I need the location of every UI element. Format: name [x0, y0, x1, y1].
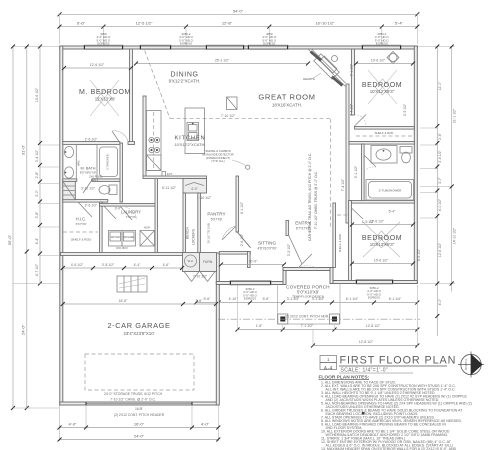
closet3 shelf dashed — [337, 214, 348, 216]
window header label stacks — [97, 32, 390, 46]
wall: closet1 south / bath2 north — [349, 142, 414, 145]
garage dims upper — [63, 267, 182, 269]
svg-text:16'/8': 16'/8' — [135, 407, 143, 411]
wall: top exterior — [60, 46, 418, 49]
svg-text:10'X13'X9'3": 10'X13'X9'3" — [370, 242, 395, 247]
svg-text:6'-6": 6'-6" — [77, 20, 86, 25]
svg-text:HEARTH: HEARTH — [303, 77, 315, 81]
svg-text:5'-4": 5'-4" — [389, 210, 397, 214]
svg-text:3'-4 1/2": 3'-4 1/2" — [35, 149, 39, 162]
svg-text:3'-5 1/2": 3'-5 1/2" — [287, 243, 291, 256]
svg-text:5'-6": 5'-6" — [263, 297, 271, 301]
master shower — [97, 145, 120, 180]
svg-text:EGRESS: EGRESS — [368, 295, 380, 299]
svg-text:A-4: A-4 — [324, 366, 333, 372]
front porch dim tier y302 — [196, 302, 417, 304]
wall: bedroom1 west — [352, 49, 355, 115]
svg-text:4'6"X10'9"X9': 4'6"X10'9"X9' — [258, 246, 277, 250]
svg-text:(2) 2X12 CONT. PITCH HDR.: (2) 2X12 CONT. PITCH HDR. — [285, 315, 330, 319]
svg-text:3'-10 1/2": 3'-10 1/2" — [81, 187, 96, 191]
svg-text:4'-0": 4'-0" — [438, 298, 442, 306]
door: bath2 — [364, 155, 376, 167]
range circles — [149, 137, 154, 142]
svg-text:25'-1 1/2": 25'-1 1/2" — [215, 58, 230, 62]
svg-text:14'-6 1/2": 14'-6 1/2" — [35, 87, 39, 102]
porch header dash-dot line — [218, 318, 420, 320]
svg-text:4'-0": 4'-0" — [201, 422, 210, 427]
svg-text:2'-8": 2'-8" — [35, 171, 39, 179]
bath2 toilet — [400, 147, 412, 154]
svg-text:12'-6 1/2": 12'-6 1/2" — [438, 242, 442, 257]
svg-text:(SHELF & ROD): (SHELF & ROD) — [71, 238, 92, 242]
svg-text:6'X7'X9': 6'X7'X9' — [76, 222, 87, 226]
svg-text:2'-6": 2'-6" — [438, 132, 442, 140]
wall: front of bedroom3 wing — [333, 281, 417, 284]
wall: garage top — [61, 253, 185, 256]
svg-text:12'-8 1/2": 12'-8 1/2" — [366, 324, 381, 328]
door: entry front — [298, 254, 312, 268]
wall: garage right exterior — [216, 253, 219, 405]
svg-text:(TYP. ALL): (TYP. ALL) — [211, 159, 224, 163]
svg-text:24'-0" STORAGE TRUSS, 6/12 PIT: 24'-0" STORAGE TRUSS, 6/12 PITCH — [104, 392, 163, 396]
ceiling fan X: master bedroom — [90, 80, 119, 116]
svg-text:DRYER: DRYER — [111, 235, 120, 239]
svg-text:5'-1 1/2": 5'-1 1/2" — [354, 165, 358, 178]
floor plan notes — [321, 381, 472, 450]
window: bedroom1 top — [362, 45, 401, 49]
north arrow compass — [461, 354, 481, 374]
door: bedroom1 — [355, 115, 367, 127]
interior dim: dining/great width — [136, 63, 308, 65]
svg-text:3'-6 1/2": 3'-6 1/2" — [438, 150, 442, 163]
svg-text:LAUNDRY: LAUNDRY — [121, 210, 141, 215]
garage bottom tier1 — [59, 405, 61, 441]
ceiling fan X: bedroom1 — [368, 70, 397, 104]
wall: lockers west — [183, 193, 186, 253]
svg-text:BEDROOM: BEDROOM — [362, 235, 402, 242]
svg-text:4'-6": 4'-6" — [163, 263, 171, 267]
hall/entry jog wall — [286, 221, 289, 236]
master bath vanity counter — [63, 145, 77, 179]
wall: laundry east / mudhall west — [155, 179, 158, 254]
garage dims mid — [63, 303, 216, 305]
wall: bath east — [120, 143, 123, 202]
svg-text:4'-0": 4'-0" — [69, 422, 78, 427]
wall: mudhall east — [198, 193, 201, 253]
svg-text:SHELF & ROD: SHELF & ROD — [338, 234, 342, 253]
svg-text:5'-4": 5'-4" — [395, 20, 404, 25]
svg-text:WASHER: WASHER — [123, 235, 134, 239]
door: pantry angled — [222, 226, 236, 240]
porch column 1 — [278, 314, 288, 324]
svg-text:10 1/2" TO SUB.: 10 1/2" TO SUB. — [207, 222, 211, 244]
svg-text:4'-0": 4'-0" — [191, 187, 199, 191]
svg-text:7'-10 1/2": 7'-10 1/2" — [193, 275, 208, 279]
svg-text:14'-10 1/2": 14'-10 1/2" — [453, 227, 457, 244]
refrigerator — [227, 97, 238, 110]
svg-text:10'-6 1/2": 10'-6 1/2" — [371, 58, 386, 62]
svg-text:12'X13'X9': 12'X13'X9' — [95, 97, 116, 102]
kitchen island — [185, 108, 205, 154]
svg-text:54'-0": 54'-0" — [233, 8, 244, 13]
svg-text:4'-1 1/2": 4'-1 1/2" — [240, 201, 244, 214]
svg-text:55'-0": 55'-0" — [7, 234, 12, 245]
fan mark: bedroom1 top — [389, 54, 397, 62]
svg-text:10'-0": 10'-0" — [249, 259, 258, 263]
wall: pantry angled SE — [237, 232, 251, 248]
svg-text:2'-6 1/2": 2'-6 1/2" — [85, 138, 98, 142]
wall: bath2 south / bedroom3 north — [349, 201, 414, 204]
porch column 2 — [330, 314, 340, 324]
svg-text:PANTRY: PANTRY — [207, 212, 225, 217]
fireplace dark jamb bars — [310, 51, 322, 62]
dimension tier left third — [39, 47, 41, 284]
svg-text:2'-6 1/2": 2'-6 1/2" — [240, 233, 244, 246]
wall: pantry east — [236, 176, 239, 232]
wall: front of sitting room — [216, 282, 286, 285]
svg-text:4'-4": 4'-4" — [35, 237, 39, 245]
svg-text:2'-6 1/2": 2'-6 1/2" — [85, 204, 98, 208]
right extension line at top — [417, 46, 455, 48]
svg-text:7'-10 1/2": 7'-10 1/2" — [221, 114, 236, 118]
mud cabinet with X — [140, 231, 155, 247]
dimension tier2 top — [60, 26, 418, 28]
svg-text:3'-8": 3'-8" — [35, 211, 39, 219]
door: toilet room — [83, 180, 92, 193]
interior dim: M bedroom width — [64, 67, 131, 69]
svg-text:12'-0": 12'-0" — [438, 81, 442, 90]
fireplace: angled corner — [308, 49, 346, 87]
svg-text:7'-1 1/2": 7'-1 1/2" — [301, 324, 314, 328]
svg-text:5' TUB/SHOWER: 5' TUB/SHOWER — [379, 189, 402, 193]
bath2 vanity + sink — [371, 146, 397, 164]
svg-text:18'X16'XCATH.: 18'X16'XCATH. — [272, 103, 302, 108]
svg-text:5' SHOWER: 5' SHOWER — [106, 154, 110, 169]
wall: bedroom3 west — [349, 201, 352, 281]
svg-text:6'-1 1/4": 6'-1 1/4" — [389, 297, 402, 301]
svg-text:31'-0": 31'-0" — [20, 144, 25, 155]
svg-text:SCALE: 1/4"=1'-0": SCALE: 1/4"=1'-0" — [341, 368, 389, 374]
note mark square — [362, 412, 365, 415]
wall: bath south — [63, 200, 108, 203]
title block box — [320, 356, 337, 370]
svg-text:3'-8 1/2": 3'-8 1/2" — [102, 263, 115, 267]
linen closet — [63, 181, 76, 199]
svg-text:4'-6 1/2": 4'-6 1/2" — [417, 248, 421, 261]
wall: left exterior — [60, 46, 63, 405]
window: sitting front — [230, 281, 271, 285]
svg-text:FURN.: FURN. — [203, 260, 213, 264]
laundry appliances: washer — [122, 231, 136, 247]
svg-text:12'-6 1/2": 12'-6 1/2" — [90, 63, 105, 67]
svg-text:7'-10 1/2" CHNS. @ 2'-0" O.C.: 7'-10 1/2" CHNS. @ 2'-0" O.C. — [110, 397, 156, 401]
svg-text:W.H.: W.H. — [187, 259, 193, 263]
smoke detector note — [202, 149, 233, 163]
svg-text:1'-8": 1'-8" — [256, 324, 264, 328]
svg-text:12'-8": 12'-8" — [222, 20, 233, 25]
svg-text:3'-9 1/2": 3'-9 1/2" — [403, 103, 407, 116]
svg-text:DINING: DINING — [170, 72, 198, 79]
dashed ceiling break: dining diagonal — [145, 51, 170, 119]
svg-text:3'-7": 3'-7" — [438, 176, 442, 184]
dimension tier left overall 55'-0" — [12, 47, 14, 409]
svg-text:16'-10 1/2": 16'-10 1/2" — [315, 20, 335, 25]
svg-text:10'X12'2"XCATH.: 10'X12'2"XCATH. — [174, 142, 205, 147]
svg-text:SITTING: SITTING — [258, 241, 277, 246]
svg-text:4'-4": 4'-4" — [134, 263, 142, 267]
master toilet — [109, 185, 117, 195]
wall: right exterior — [414, 46, 417, 284]
bath2 tub — [366, 180, 414, 201]
svg-text:10'X12'X9'3": 10'X12'X9'3" — [370, 89, 395, 94]
extension lines left — [40, 144, 59, 146]
svg-text:GREAT ROOM: GREAT ROOM — [258, 93, 315, 102]
wall: great room east / hall — [346, 84, 349, 223]
window label stack: sitting front — [243, 286, 382, 300]
wall: bath mid (2x6 plumb wall) — [63, 179, 77, 182]
svg-text:H.I.C.: H.I.C. — [76, 217, 87, 222]
svg-text:7'X7'X9': 7'X7'X9' — [126, 215, 137, 219]
door: bedroom3 — [352, 208, 364, 219]
svg-text:7'-4 1/2": 7'-4 1/2" — [341, 178, 345, 191]
svg-text:5'X7'X9': 5'X7'X9' — [211, 218, 223, 222]
svg-text:M. BEDROOM: M. BEDROOM — [79, 89, 131, 96]
svg-text:3'-0": 3'-0" — [115, 207, 123, 211]
svg-text:WALL: WALL — [91, 178, 99, 182]
left extension line at top — [13, 46, 60, 48]
svg-text:HOP.: HOP. — [144, 226, 151, 230]
svg-text:FIRST FLOOR PLAN: FIRST FLOOR PLAN — [340, 355, 457, 367]
wall: HIC2 east — [100, 202, 103, 253]
closet1 shelf dashed — [356, 135, 413, 137]
wall: M.bedroom south / bath north — [63, 142, 120, 145]
svg-text:BENCH: BENCH — [186, 227, 190, 239]
svg-text:5'-11 1/2": 5'-11 1/2" — [162, 186, 177, 190]
svg-text:4'-10": 4'-10" — [229, 297, 238, 301]
window: dining top left — [140, 45, 171, 49]
svg-text:(2) 2X12 CONT. PITCH HEADER: (2) 2X12 CONT. PITCH HEADER — [114, 413, 165, 417]
laundry appliances: dryer — [109, 231, 123, 247]
window: dining top right — [206, 45, 244, 49]
wall: sitting east — [248, 252, 251, 268]
garage attic stair — [117, 276, 147, 292]
dimension tier1 top overall 54'-0" — [60, 13, 418, 15]
garage storage dashed rect — [85, 354, 194, 390]
svg-text:8'5"X8'5"X9': 8'5"X8'5"X9' — [80, 171, 97, 175]
dim: bedroom3 widths — [352, 224, 413, 226]
wall: entry front wall — [283, 268, 333, 271]
svg-text:12'-8 1/2": 12'-8 1/2" — [359, 340, 374, 344]
svg-text:16'-0": 16'-0" — [134, 422, 145, 427]
svg-text:9'X12'2"XCATH.: 9'X12'2"XCATH. — [169, 79, 201, 84]
svg-text:NORTH: NORTH — [464, 359, 468, 370]
svg-text:VAN.: VAN. — [77, 160, 81, 167]
svg-text:12'-5 1/2": 12'-5 1/2" — [136, 20, 153, 25]
wall: kitchen west — [143, 96, 146, 177]
bottom right tier y345 — [313, 345, 417, 347]
svg-text:4'-6 1/2": 4'-6 1/2" — [71, 263, 84, 267]
dimension tier right first — [436, 47, 438, 337]
svg-text:23'4"X23'8"X10': 23'4"X23'8"X10' — [123, 331, 154, 336]
wall: bed3 closet west — [333, 203, 336, 268]
porch slab outline — [277, 285, 279, 325]
svg-text:EGRESS: EGRESS — [244, 296, 256, 300]
HIC2 shelf dashed — [63, 231, 98, 233]
door: laundry — [120, 206, 132, 220]
wall: hall north (kitchen south) — [143, 176, 207, 179]
window: master bedroom top — [84, 45, 123, 49]
svg-text:5'-6": 5'-6" — [196, 299, 204, 303]
svg-text:6'-1 1/4": 6'-1 1/4" — [346, 297, 359, 301]
svg-text:4'-0 1/2": 4'-0 1/2" — [438, 198, 442, 211]
svg-text:7'-4 1/2": 7'-4 1/2" — [350, 103, 354, 116]
svg-text:3'-0": 3'-0" — [35, 189, 39, 197]
svg-text:SHELF & ROD: SHELF & ROD — [375, 131, 394, 135]
svg-text:LOCKERS: LOCKERS — [192, 228, 196, 245]
door: HIC2 — [102, 204, 116, 219]
coat closet box — [183, 179, 207, 194]
wall: laundry north — [100, 204, 158, 207]
svg-text:EXT.: EXT. — [167, 172, 173, 176]
dimension tier right second — [451, 47, 453, 292]
dashed ceiling break: vertical great room — [330, 119, 332, 228]
interior dim: bedroom1 width — [356, 63, 413, 65]
dimension tier left second — [26, 47, 28, 409]
svg-text:BEDROOM: BEDROOM — [362, 82, 402, 89]
garage furnace closet — [183, 253, 217, 272]
svg-text:4'-7 1/2": 4'-7 1/2" — [35, 263, 39, 276]
svg-text:CATHEDRAL TRAIL A/2 TRUSS, 6/1: CATHEDRAL TRAIL A/2 TRUSS, 6/12 PITCH @ … — [308, 153, 312, 241]
dim: sitting width — [221, 264, 284, 266]
svg-text:21'-1 1/2": 21'-1 1/2" — [453, 108, 457, 123]
wall: porch recess west — [283, 268, 286, 285]
door: M.bedroom (swing) — [112, 131, 120, 143]
dashed ceiling break: horizontal — [170, 118, 331, 120]
svg-text:KITCHEN: KITCHEN — [174, 136, 205, 142]
svg-text:18'-6": 18'-6" — [119, 299, 128, 303]
svg-text:24'-0": 24'-0" — [134, 434, 145, 439]
door: furnace closet double doors — [184, 272, 199, 282]
kitchen west counter — [147, 111, 162, 171]
window: bedroom3 front — [356, 280, 393, 284]
svg-text:10'-6 1/2": 10'-6 1/2" — [374, 258, 389, 262]
window: great room top — [248, 45, 288, 49]
wall: garage bottom exterior — [60, 402, 219, 405]
svg-text:9'-1 1/2": 9'-1 1/2" — [350, 63, 354, 76]
svg-text:1'-10 1/2": 1'-10 1/2" — [197, 196, 212, 200]
wall: sitting north — [219, 252, 250, 255]
svg-text:1'-5 1/2": 1'-5 1/2" — [362, 220, 375, 224]
porch column dim tier y329 — [238, 329, 418, 331]
garage bottom tier2 24'-0" — [60, 439, 219, 441]
wall: bath2 west — [362, 144, 365, 201]
svg-text:24'-0": 24'-0" — [20, 324, 25, 335]
wall: M.bedroom east — [130, 49, 133, 144]
svg-text:5'-6": 5'-6" — [204, 297, 212, 301]
fireplace fan circle — [332, 56, 338, 62]
ceiling fan X: bedroom3 — [363, 222, 400, 257]
svg-text:7'-10 1/2" OHBS. TRUSS @ 2'-0": 7'-10 1/2" OHBS. TRUSS @ 2'-0" O.C. — [314, 171, 318, 229]
svg-text:W.D. BOX: W.D. BOX — [116, 246, 128, 250]
wall: porch recess east — [330, 268, 333, 284]
door: HIC2 from bath — [78, 202, 92, 217]
garage door opening — [86, 403, 192, 405]
wall: bedroom1 south (closet north) — [355, 127, 415, 130]
water heater circle — [185, 255, 197, 267]
svg-text:TEMP/FLOOR DESIGN: TEMP/FLOOR DESIGN — [292, 295, 324, 299]
svg-text:2-CAR GARAGE: 2-CAR GARAGE — [107, 321, 170, 330]
svg-text:EGRESS: EGRESS — [180, 42, 192, 46]
